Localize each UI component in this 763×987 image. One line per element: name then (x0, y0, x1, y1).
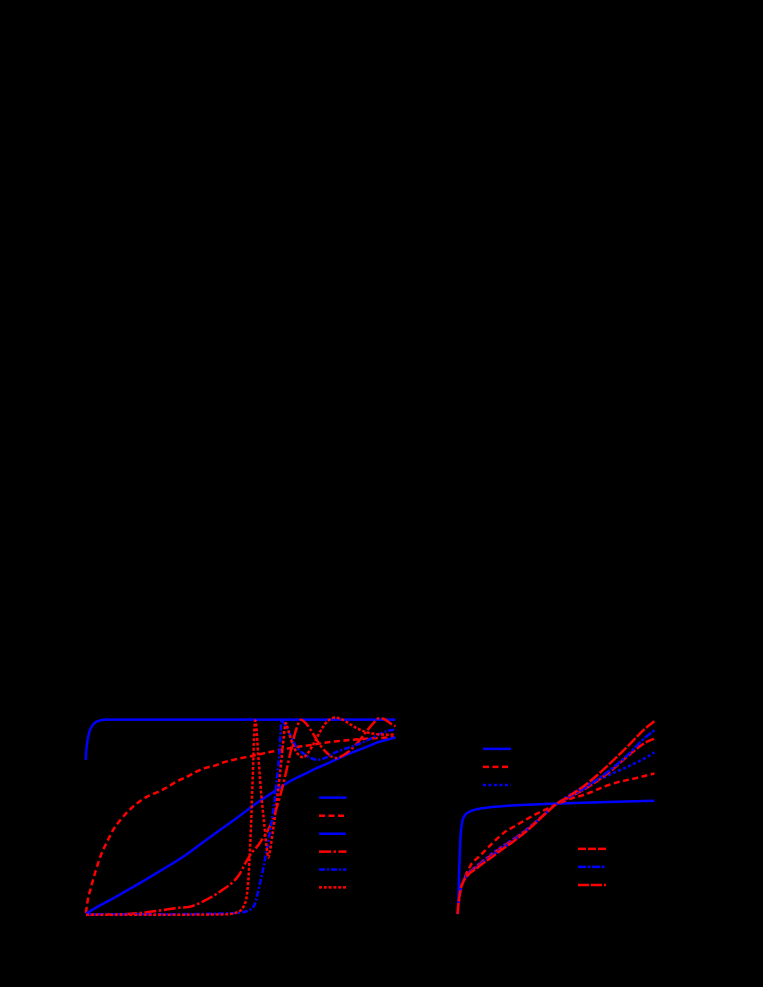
right plot: curve 3 blue dotted (458, 752, 655, 914)
legend sample line Lleg4 (319, 850, 347, 853)
legend sample line Lleg6 (319, 886, 347, 889)
left plot: curve 2 red dashed saturating (86, 737, 394, 913)
legend sample line Rleg5 (578, 866, 606, 869)
legend sample line Lleg3 (319, 832, 346, 835)
right plot: curve 1 blue solid saturating (458, 801, 655, 914)
left plot: curve 5 blue dash-dot spike (86, 720, 396, 915)
legend sample line Lleg1 (319, 796, 347, 799)
left plot: curve 4 red dash-dot sigmoid (86, 718, 396, 914)
legend sample line Rleg6 (578, 884, 606, 887)
legend sample line Lleg5 (319, 868, 347, 871)
left plot: curve 1 blue solid step (86, 720, 396, 760)
left plot: curve 3 blue solid diagonal (86, 737, 396, 914)
legend sample line Lleg2 (319, 814, 347, 817)
legend sample line Rleg3 (483, 784, 511, 787)
right plot: curve 4 red dash-dot (458, 739, 655, 914)
legend sample line Rleg1 (483, 748, 511, 751)
legend sample line Rleg4 (578, 848, 606, 851)
legend sample line Rleg2 (483, 766, 511, 769)
right plot: curve 5 blue dash-dot (458, 730, 655, 914)
left plot: curve 6 red dotted spike (86, 718, 396, 915)
right plot: curve 6 red dash-dot steep (458, 721, 655, 914)
right plot: curve 2 red dashed (458, 774, 655, 915)
